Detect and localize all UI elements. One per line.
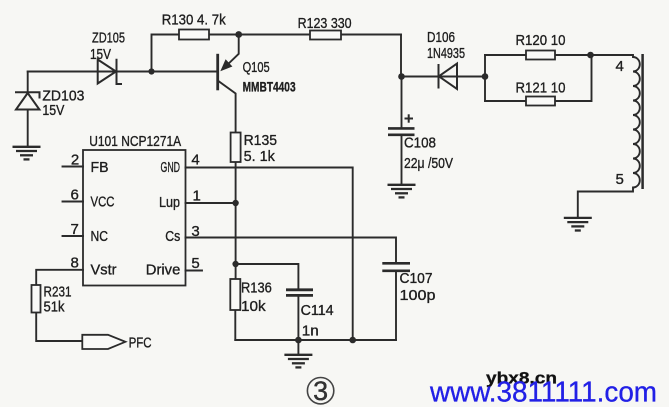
wire ZD103 bottom lead to ground (27, 110, 29, 147)
svg-text:Vstr: Vstr (91, 262, 117, 279)
node junction dot Lup / R135 (232, 200, 238, 206)
svg-text:PFC: PFC (129, 335, 152, 352)
ground under C108 (388, 185, 416, 198)
wire node to D106 anode (401, 76, 485, 78)
svg-text:10k: 10k (241, 298, 266, 315)
svg-text:D106: D106 (427, 29, 455, 46)
wire C107 bottom lead (395, 272, 397, 340)
svg-text:www.3811111.com: www.3811111.com (429, 377, 657, 407)
svg-text:15V: 15V (42, 102, 64, 119)
transformer core bar (641, 54, 644, 189)
wire R136 bottom lead (234, 310, 236, 340)
wire Q105 collector to R135 (218, 81, 236, 133)
svg-text:7: 7 (71, 221, 79, 238)
svg-text:R130 4. 7k: R130 4. 7k (162, 12, 226, 29)
svg-text:4: 4 (191, 152, 199, 169)
svg-text:GND: GND (161, 159, 181, 176)
transistor Q105 emitter with arrow (224, 35, 239, 69)
ground under C114 (284, 355, 312, 368)
node junction dot R136 top / C114 (232, 261, 238, 267)
node junction dot GND rail bottom (349, 337, 356, 344)
svg-text:5: 5 (616, 171, 624, 188)
wire base rail from ZD103 corner through ZD105 to Q105 base (28, 71, 218, 73)
svg-text:C114: C114 (301, 302, 334, 319)
wire node to C114 top (236, 264, 299, 288)
wire C114 ground lead (297, 340, 299, 355)
wire R135 bottom to R136 top (235, 162, 237, 279)
ground under transformer (564, 218, 592, 231)
svg-text:8: 8 (71, 254, 79, 271)
svg-text:U101 NCP1271A: U101 NCP1271A (89, 133, 181, 150)
node junction dot Q105 emitter on top rail (235, 31, 242, 38)
svg-text:R135: R135 (244, 132, 277, 149)
zener diode ZD103 (15, 92, 40, 109)
svg-text:C108: C108 (404, 135, 436, 152)
svg-text:22μ /50V: 22μ /50V (404, 155, 453, 172)
wire node to transformer pin 4 (591, 55, 634, 57)
svg-text:1: 1 (193, 188, 201, 205)
svg-text:FB: FB (91, 159, 109, 176)
wire pin2 FB stub (63, 166, 84, 168)
svg-text:NC: NC (91, 228, 109, 245)
svg-text:51k: 51k (44, 299, 65, 316)
capacitor C108 polarized (388, 128, 415, 134)
wire top rail from R130 left lead to R123 right corner (152, 35, 402, 72)
resistor R130 (179, 30, 209, 40)
svg-text:1n: 1n (302, 323, 319, 340)
wire transformer pin 5 lead to ground (578, 188, 633, 218)
wire ZD103 top lead (27, 72, 29, 93)
transistor Q105 base bar (216, 54, 219, 91)
svg-text:Lup: Lup (159, 194, 180, 211)
transformer winding pins 4-5 (633, 57, 640, 188)
svg-text:6: 6 (71, 186, 79, 203)
svg-text:R121 10: R121 10 (516, 80, 566, 97)
wire C114 bottom lead (297, 297, 299, 341)
wire GND pin4 net (186, 168, 353, 341)
node junction dot parallel resistors left (482, 73, 489, 80)
resistor R120 (526, 51, 555, 60)
wire C108 bottom lead (401, 136, 403, 184)
node junction dot parallel resistors right (587, 52, 594, 59)
wire C108 top lead (401, 77, 403, 128)
svg-text:1N4935: 1N4935 (427, 45, 465, 62)
wire Cs pin3 net to C107 (186, 238, 397, 263)
op IC U101 NCP1271A box (83, 150, 186, 286)
svg-text:R136: R136 (241, 280, 272, 297)
svg-text:R120 10: R120 10 (516, 32, 566, 49)
figure number circled 3 (307, 378, 333, 404)
svg-text:MMBT4403: MMBT4403 (243, 79, 296, 95)
resistor R121 (526, 97, 555, 106)
wire bottom ground rail (235, 339, 396, 341)
zener diode ZD105 (98, 59, 122, 84)
resistor R123 (310, 31, 341, 40)
svg-text:3: 3 (191, 223, 199, 240)
wire pin6 VCC stub (63, 201, 84, 203)
node junction dot C114 ground (295, 337, 302, 344)
wire R123 output drop to D106 node (400, 35, 402, 77)
wire R121 branch (485, 55, 592, 101)
diode D106 (439, 64, 458, 90)
wire R120 branch (485, 54, 591, 56)
node junction dot D106 anode / C108 (398, 73, 405, 80)
svg-text:2: 2 (71, 151, 79, 168)
wire R231 bottom to PFC (36, 313, 82, 342)
resistor R136 (230, 279, 240, 310)
wire Drive pin5 stub (186, 270, 203, 272)
wire pin8 Vstr stub to R231 (36, 270, 83, 285)
svg-text:Cs: Cs (165, 228, 180, 245)
svg-text:Drive: Drive (146, 262, 181, 279)
wire parallel-pair left vertical (484, 55, 486, 101)
resistor R231 (32, 285, 41, 313)
C108 plus sign (405, 114, 414, 122)
svg-text:3: 3 (313, 376, 328, 406)
svg-text:R123 330: R123 330 (298, 15, 352, 32)
capacitor C114 (286, 290, 313, 296)
svg-text:Q105: Q105 (243, 59, 270, 76)
PFC connector arrow (82, 335, 125, 349)
wire pin7 NC stub (63, 235, 84, 237)
svg-text:C107: C107 (400, 270, 433, 287)
resistor R135 (231, 133, 241, 163)
svg-text:15V: 15V (90, 46, 111, 63)
wire Lup pin1 net (186, 202, 236, 204)
capacitor C107 (382, 263, 410, 271)
node junction dot on base rail (148, 68, 154, 74)
svg-text:100p: 100p (400, 287, 436, 304)
svg-text:5: 5 (191, 255, 199, 272)
svg-text:5. 1k: 5. 1k (244, 148, 276, 165)
svg-text:VCC: VCC (91, 194, 115, 211)
ground under ZD103 (13, 147, 41, 160)
svg-text:ZD105: ZD105 (92, 30, 125, 47)
svg-text:4: 4 (616, 58, 624, 75)
